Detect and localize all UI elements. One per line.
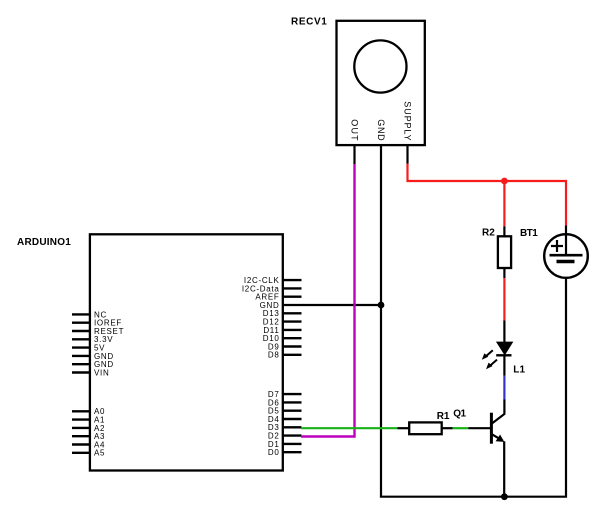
Arduino pin GND lead (left) xyxy=(72,355,90,357)
Arduino pin A2 lead (left) xyxy=(72,427,90,429)
wire SUPPLY red rail xyxy=(408,164,567,226)
Arduino pin D7 lead (right) xyxy=(283,393,302,395)
LED L1 emission arrow 2 xyxy=(486,360,497,370)
svg-text:GND: GND xyxy=(376,119,386,141)
Arduino pin D2 lead (right) xyxy=(283,434,302,436)
wire Arduino GND to ground net (horizontal) xyxy=(283,304,381,306)
resistor R2 xyxy=(498,226,511,278)
LED L1 emission arrow 1 xyxy=(482,350,493,360)
LED L1 xyxy=(496,321,512,376)
svg-text:Q1: Q1 xyxy=(453,409,466,420)
Arduino pin A4 lead (left) xyxy=(72,443,90,445)
Arduino pin A5 lead (left) xyxy=(72,452,90,454)
Arduino pin D10 lead (right) xyxy=(283,337,302,339)
wire LED to collector (blue) xyxy=(503,376,505,400)
wire RECV1 OUT to Arduino D2 (magenta) xyxy=(301,164,355,437)
svg-text:D8: D8 xyxy=(268,351,280,360)
Arduino pin GND lead (left) xyxy=(72,363,90,365)
Arduino pin IOREF lead (left) xyxy=(72,322,90,324)
svg-text:ARDUINO1: ARDUINO1 xyxy=(17,237,71,248)
wire R2 to LED (red) xyxy=(503,278,505,320)
RECV1 pin OUT lead xyxy=(353,145,355,164)
wire base lead xyxy=(468,427,490,429)
Arduino pin 3.3V lead (left) xyxy=(72,338,90,340)
Arduino pin D4 lead (right) xyxy=(283,418,302,420)
Arduino pin A0 lead (left) xyxy=(72,410,90,412)
svg-text:OUT: OUT xyxy=(350,119,360,141)
wire bottom ground rail xyxy=(380,261,566,497)
Arduino pin D5 lead (right) xyxy=(283,410,302,412)
resistor R1 xyxy=(398,422,453,434)
Arduino pin A1 lead (left) xyxy=(72,418,90,420)
Arduino pin D12 lead (right) xyxy=(283,320,302,322)
IR receiver RECV1 body xyxy=(337,21,425,145)
wire R1 to Q1 base (green) xyxy=(453,427,469,429)
svg-text:R2: R2 xyxy=(482,227,495,238)
Arduino pin D11 lead (right) xyxy=(283,329,302,331)
Arduino pin D0 lead (right) xyxy=(283,451,302,453)
junction supply node xyxy=(501,178,508,185)
Arduino pin D9 lead (right) xyxy=(283,345,302,347)
RECV1 pin SUPPLY lead xyxy=(406,145,408,163)
wire RECV1 GND down to ground rail xyxy=(380,164,382,497)
svg-text:SUPPLY: SUPPLY xyxy=(403,101,413,141)
Arduino pin D6 lead (right) xyxy=(283,401,302,403)
wire red branch to R2 xyxy=(503,181,505,226)
Arduino pin D8 lead (right) xyxy=(283,354,302,356)
Arduino pin RESET lead (left) xyxy=(72,330,90,332)
Arduino pin I2C-CLK lead (right) xyxy=(283,279,302,281)
Arduino pin NC lead (left) xyxy=(72,313,90,315)
Arduino ARDUINO1 body xyxy=(90,234,283,470)
Arduino pin VIN lead (left) xyxy=(72,371,90,373)
junction GND node at RECV1 GND wire xyxy=(378,302,385,309)
svg-text:VIN: VIN xyxy=(94,368,109,377)
Arduino pin D1 lead (right) xyxy=(283,443,302,445)
junction emitter to ground rail xyxy=(501,493,508,500)
svg-text:RECV1: RECV1 xyxy=(291,17,327,28)
svg-text:R1: R1 xyxy=(437,411,450,422)
svg-text:L1: L1 xyxy=(513,364,525,375)
Arduino pin D13 lead (right) xyxy=(283,312,302,314)
Arduino pin 5V lead (left) xyxy=(72,346,90,348)
wire D3 to R1 (green) xyxy=(301,427,398,429)
svg-text:A5: A5 xyxy=(94,449,105,458)
transistor Q1 xyxy=(491,400,504,497)
Arduino pin I2C-Data lead (right) xyxy=(283,287,302,289)
Arduino pin A3 lead (left) xyxy=(72,435,90,437)
RECV1 pin GND lead xyxy=(380,145,382,164)
svg-text:BT1: BT1 xyxy=(520,228,538,239)
svg-text:GND: GND xyxy=(260,301,280,310)
Arduino pin D3 lead (right) xyxy=(283,426,302,428)
svg-text:D0: D0 xyxy=(268,448,280,457)
Arduino pin AREF lead (right) xyxy=(283,296,302,298)
battery BT1 body xyxy=(544,225,588,277)
